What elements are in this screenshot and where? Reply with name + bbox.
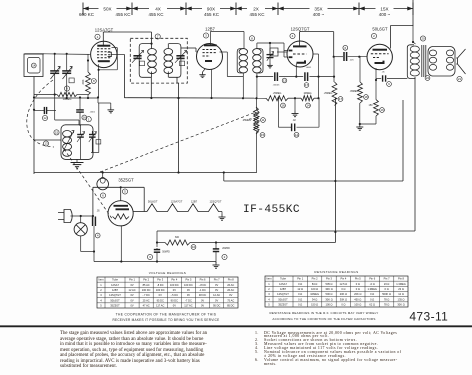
svg-text:75 AC: 75 AC — [227, 298, 234, 302]
svg-text:RECEIVER MAKES IT POSSIBLE: RECEIVER MAKES IT POSSIBLE TO BRING YOU … — [112, 318, 219, 322]
svg-text:.0001: .0001 — [306, 67, 312, 69]
svg-text:12SQ7GT: 12SQ7GT — [291, 27, 310, 32]
svg-text:Pin 5: Pin 5 — [355, 277, 361, 281]
svg-text:90X: 90X — [207, 6, 215, 11]
svg-text:12SA7: 12SA7 — [279, 282, 287, 286]
svg-text:35X: 35X — [314, 6, 322, 11]
svg-text:400 ~: 400 ~ — [313, 12, 325, 17]
svg-text:0 Ω: 0 Ω — [298, 282, 302, 286]
svg-text:117 AC: 117 AC — [184, 304, 192, 308]
svg-text:12SQ7GT: 12SQ7GT — [209, 200, 221, 204]
svg-text:20: 20 — [421, 37, 425, 41]
svg-text:12SA7GT: 12SA7GT — [171, 200, 183, 204]
svg-text:35Z5GT: 35Z5GT — [278, 303, 288, 307]
svg-text:16: 16 — [83, 116, 87, 120]
svg-text:14: 14 — [32, 64, 36, 68]
svg-text:35Z5GT: 35Z5GT — [118, 178, 134, 183]
svg-text:0V: 0V — [215, 288, 218, 292]
svg-text:15: 15 — [55, 131, 59, 135]
svg-text:455 KC: 455 KC — [249, 12, 265, 17]
svg-text:62 Ω: 62 Ω — [369, 303, 375, 307]
svg-text:14: 14 — [306, 104, 310, 108]
svg-text:135 Ω: 135 Ω — [398, 297, 405, 301]
svg-text:30K Ω: 30K Ω — [325, 297, 332, 301]
svg-text:12B7: 12B7 — [205, 27, 215, 32]
svg-text:1.3MEG: 1.3MEG — [396, 282, 406, 286]
svg-text:12 AC: 12 AC — [213, 293, 220, 297]
svg-text:20K Ω: 20K Ω — [340, 292, 347, 296]
svg-text:VOLTAGE READINGS: VOLTAGE READINGS — [149, 271, 187, 275]
svg-text:Pin 8: Pin 8 — [228, 278, 234, 282]
svg-text:Pin 4: Pin 4 — [171, 278, 177, 282]
svg-text:Tube: Tube — [280, 277, 286, 281]
svg-text:0V: 0V — [187, 293, 190, 297]
svg-text:0 Ω: 0 Ω — [356, 282, 360, 286]
svg-text:Pin 7: Pin 7 — [384, 277, 390, 281]
svg-text:10: 10 — [192, 245, 196, 249]
svg-text:22: 22 — [426, 76, 430, 80]
svg-text:Pin 8: Pin 8 — [398, 277, 404, 281]
svg-text:12SQ7GT: 12SQ7GT — [277, 292, 289, 296]
svg-text:505 Ω: 505 Ω — [326, 282, 333, 286]
svg-text:0V: 0V — [201, 304, 204, 308]
svg-text:0 Ω: 0 Ω — [341, 287, 345, 291]
svg-text:-1 DC: -1 DC — [199, 288, 206, 292]
svg-text:0 Ω: 0 Ω — [356, 287, 360, 291]
svg-text:23 Ω: 23 Ω — [398, 287, 404, 291]
svg-text:0 Ω: 0 Ω — [298, 292, 302, 296]
svg-text:.25MEG: .25MEG — [242, 119, 251, 122]
svg-text:455 KC: 455 KC — [204, 12, 220, 17]
svg-text:IF-455KC: IF-455KC — [243, 204, 300, 216]
svg-text:Item: Item — [266, 277, 271, 281]
svg-text:150: 150 — [369, 104, 374, 107]
svg-text:30K Ω: 30K Ω — [340, 297, 347, 301]
svg-text:17: 17 — [305, 83, 309, 87]
svg-text:.25MEG: .25MEG — [324, 92, 333, 95]
svg-text:455 KC: 455 KC — [115, 12, 131, 17]
svg-text:12.5 Ω: 12.5 Ω — [340, 282, 348, 286]
svg-text:19: 19 — [380, 108, 384, 112]
svg-text:85 AC: 85 AC — [143, 283, 150, 287]
svg-text:50X: 50X — [103, 6, 111, 11]
svg-text:-0 Ω: -0 Ω — [370, 282, 375, 286]
svg-text:-.7 DC: -.7 DC — [142, 293, 150, 297]
svg-text:Pin 3: Pin 3 — [157, 278, 163, 282]
svg-text:Pin 1: Pin 1 — [129, 278, 135, 282]
svg-text:Pin 7: Pin 7 — [214, 278, 220, 282]
svg-text:0V: 0V — [159, 293, 162, 297]
svg-text:500 Ω: 500 Ω — [326, 292, 333, 296]
svg-text:117 AC: 117 AC — [156, 304, 164, 308]
svg-text:50MFD: 50MFD — [162, 252, 170, 254]
svg-text:Pin 5: Pin 5 — [185, 278, 191, 282]
svg-text:20K Ω: 20K Ω — [354, 292, 361, 296]
svg-text:ACCORDING TO THE CONDITION: ACCORDING TO THE CONDITION OF THE FILTER… — [272, 317, 375, 321]
svg-text:85 DC: 85 DC — [227, 304, 234, 308]
svg-text:0V: 0V — [187, 288, 190, 292]
svg-text:84 Ω: 84 Ω — [312, 282, 318, 286]
svg-text:600: 600 — [175, 236, 180, 239]
svg-text:13: 13 — [283, 79, 287, 83]
svg-text:.0001: .0001 — [90, 111, 96, 113]
svg-text:50L6GT: 50L6GT — [110, 298, 120, 302]
svg-text:Pin 1: Pin 1 — [297, 277, 303, 281]
svg-text:0 Ω: 0 Ω — [385, 287, 389, 291]
svg-text:0V: 0V — [215, 283, 218, 287]
svg-text:17: 17 — [339, 97, 343, 101]
svg-text:100 DC: 100 DC — [184, 283, 193, 287]
svg-text:48 DC: 48 DC — [199, 293, 206, 297]
svg-text:150 Ω: 150 Ω — [311, 303, 318, 307]
svg-text:20K: 20K — [81, 79, 85, 84]
svg-text:-7 DC: -7 DC — [185, 298, 192, 302]
svg-text:Tube: Tube — [112, 278, 118, 282]
svg-text:400 ~: 400 ~ — [379, 12, 391, 17]
svg-text:16: 16 — [281, 104, 285, 108]
svg-text:0 Ω: 0 Ω — [370, 297, 374, 301]
svg-text:Pin 6: Pin 6 — [200, 278, 206, 282]
svg-text:4X: 4X — [155, 6, 161, 11]
svg-text:12: 12 — [295, 133, 299, 137]
svg-text:100 Ω: 100 Ω — [311, 287, 318, 291]
svg-text:11: 11 — [261, 118, 264, 122]
svg-text:26 AC: 26 AC — [227, 288, 234, 292]
svg-text:473-11: 473-11 — [409, 310, 448, 324]
svg-text:12 Ω: 12 Ω — [297, 287, 303, 291]
svg-text:78 Ω: 78 Ω — [384, 297, 390, 301]
svg-text:-8 DC: -8 DC — [157, 283, 164, 287]
svg-text:100 Ω: 100 Ω — [326, 303, 333, 307]
svg-text:30K Ω: 30K Ω — [397, 303, 404, 307]
svg-text:RESISTANCE READINGS IN THE: RESISTANCE READINGS IN THE R.F. CIRCUITS… — [269, 311, 378, 315]
svg-text:455 KC: 455 KC — [148, 12, 164, 17]
svg-text:26 AC: 26 AC — [227, 283, 234, 287]
svg-text:0 Ω: 0 Ω — [298, 303, 302, 307]
svg-text:0 Ω: 0 Ω — [341, 303, 345, 307]
svg-text:12SA7: 12SA7 — [111, 283, 119, 287]
svg-text:Pin 3: Pin 3 — [326, 277, 332, 281]
svg-text:18: 18 — [364, 95, 368, 99]
svg-text:95 DC: 95 DC — [157, 298, 164, 302]
svg-text:12B7: 12B7 — [280, 287, 287, 291]
svg-text:0V: 0V — [130, 304, 133, 308]
svg-text:100 DC: 100 DC — [142, 288, 151, 292]
svg-text:.25MEG: .25MEG — [273, 92, 282, 95]
svg-text:Pin 2: Pin 2 — [143, 278, 149, 282]
svg-text:23 Ω: 23 Ω — [384, 282, 390, 286]
svg-text:12 AC: 12 AC — [129, 288, 136, 292]
svg-text:Item: Item — [98, 278, 103, 282]
svg-text:0V: 0V — [173, 304, 176, 308]
svg-text:15X: 15X — [380, 6, 388, 11]
svg-text:34 Ω: 34 Ω — [312, 297, 318, 301]
svg-text:0V: 0V — [201, 298, 204, 302]
svg-text:600 KC: 600 KC — [79, 12, 95, 17]
svg-text:50L6GT: 50L6GT — [372, 27, 388, 32]
svg-text:100 Ω: 100 Ω — [354, 303, 361, 307]
svg-text:0V: 0V — [229, 293, 232, 297]
svg-text:12: 12 — [43, 116, 47, 120]
svg-text:-.8 DC: -.8 DC — [199, 283, 207, 287]
svg-text:15: 15 — [261, 133, 265, 137]
svg-text:21: 21 — [458, 77, 462, 81]
svg-text:0V: 0V — [173, 288, 176, 292]
svg-text:.00005: .00005 — [273, 84, 280, 86]
svg-text:450 Ω: 450 Ω — [354, 297, 361, 301]
svg-text:30K Ω: 30K Ω — [325, 287, 332, 291]
svg-text:47 AC: 47 AC — [143, 304, 150, 308]
svg-text:13: 13 — [44, 142, 48, 146]
svg-text:1.3MEG: 1.3MEG — [367, 287, 377, 291]
svg-text:100 DC: 100 DC — [156, 288, 165, 292]
svg-text:Pin 2: Pin 2 — [312, 277, 318, 281]
svg-text:.05MEG: .05MEG — [350, 90, 359, 93]
svg-text:Pin 6: Pin 6 — [369, 277, 375, 281]
svg-text:0V: 0V — [130, 298, 133, 302]
svg-text:100 DC: 100 DC — [170, 283, 179, 287]
svg-text:50L6GT: 50L6GT — [148, 200, 158, 204]
svg-text:THE COOPERATION OF THE MAN: THE COOPERATION OF THE MANUFACTURER OF T… — [116, 312, 217, 316]
svg-text:Pin 4: Pin 4 — [340, 277, 346, 281]
svg-text:0V: 0V — [130, 293, 133, 297]
svg-text:10MEG: 10MEG — [310, 292, 319, 296]
svg-text:12B7: 12B7 — [191, 200, 198, 204]
svg-text:50L6GT: 50L6GT — [278, 297, 288, 301]
svg-text:0 Ω: 0 Ω — [370, 292, 374, 296]
svg-text:78 Ω: 78 Ω — [384, 303, 390, 307]
svg-text:RESISTANCE READINGS: RESISTANCE READINGS — [314, 270, 358, 274]
svg-text:25 AC: 25 AC — [143, 298, 150, 302]
svg-text:12 Ω: 12 Ω — [398, 292, 404, 296]
svg-text:0V: 0V — [215, 298, 218, 302]
svg-text:-.5 DC: -.5 DC — [171, 293, 179, 297]
svg-text:95 DC: 95 DC — [213, 304, 220, 308]
svg-text:12SQ7GT: 12SQ7GT — [109, 293, 121, 297]
svg-text:10MEG: 10MEG — [303, 92, 311, 95]
svg-text:12B7: 12B7 — [112, 288, 119, 292]
svg-text:20MFD: 20MFD — [222, 248, 230, 250]
svg-text:2X: 2X — [253, 6, 259, 11]
svg-text:0V: 0V — [130, 283, 133, 287]
svg-text:500K Ω: 500K Ω — [382, 292, 391, 296]
svg-text:90 DC: 90 DC — [171, 298, 178, 302]
svg-text:0 Ω: 0 Ω — [298, 297, 302, 301]
svg-text:35Z5GT: 35Z5GT — [110, 304, 120, 308]
